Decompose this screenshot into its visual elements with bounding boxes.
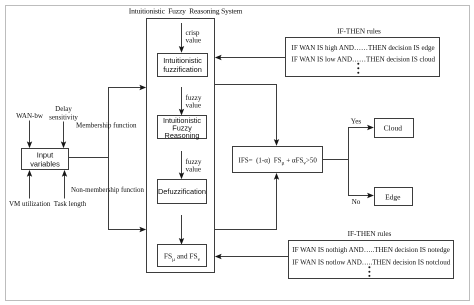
svg-text:Intuitionistic Fuzzy Reasoni: Intuitionistic Fuzzy Reasoning System (129, 7, 243, 16)
svg-text:Edge: Edge (385, 192, 401, 201)
svg-text:value: value (186, 37, 202, 45)
svg-text:Reasoning: Reasoning (165, 131, 200, 140)
svg-text:Defuzzification: Defuzzification (158, 187, 206, 196)
svg-text:Delay: Delay (55, 105, 72, 113)
svg-text:IF-THEN rules: IF-THEN rules (337, 27, 381, 35)
label: fuzzy value (lower) (186, 158, 202, 173)
box: Defuzzification (158, 180, 207, 204)
wire: Delay sensitivity arrow into input variables (61, 122, 66, 149)
box: IF-THEN rules top (286, 38, 440, 77)
wire: system box to IFS top entry (215, 85, 280, 146)
wire: Task length arrow into input variables (62, 170, 67, 199)
svg-text:fuzzification: fuzzification (163, 65, 202, 74)
svg-text:WAN-bw: WAN-bw (16, 112, 44, 120)
box: Edge (375, 188, 413, 206)
svg-text:value: value (186, 102, 202, 110)
wire: IFS to yes/no junction (323, 159, 349, 161)
wire: input variables to junction (68, 157, 109, 159)
box: IFS decision (233, 147, 323, 173)
box: Input variables (22, 149, 69, 170)
label: crisp value (186, 29, 202, 45)
svg-text:variables: variables (30, 159, 60, 168)
svg-text:IF WAN IS notlow AND…..THEN de: IF WAN IS notlow AND…..THEN decision IS … (292, 258, 450, 266)
wire: arrow defuzzification to FS box (179, 215, 184, 245)
wire: crisp value arrow into fuzzification (179, 23, 184, 53)
wire: vertical junction line (108, 87, 110, 230)
svg-text:VM utilization: VM utilization (9, 200, 51, 208)
box: Cloud (375, 119, 414, 138)
svg-text:IF-THEN rules: IF-THEN rules (348, 230, 392, 238)
wire: arrow IF-THEN bottom to system box (215, 254, 289, 259)
svg-text:Non-membership function: Non-membership function (71, 187, 144, 194)
svg-text:Membership function: Membership function (76, 122, 137, 130)
wire: yes branch arrow to Cloud (348, 125, 374, 130)
box: FSmu and FSnu (158, 245, 207, 267)
svg-text:Input: Input (37, 150, 53, 159)
svg-text:No: No (352, 198, 361, 206)
wire: no branch arrow to Edge (348, 193, 374, 198)
wire: VM utilization arrow into input variables (27, 170, 32, 199)
svg-text:Cloud: Cloud (384, 124, 403, 133)
svg-text:IF WAN IS low AND……THEN decisi: IF WAN IS low AND……THEN decision IS clou… (292, 55, 436, 63)
box: Intuitionistic fuzzification (158, 54, 208, 77)
wire: junction vertical (348, 128, 350, 196)
wire: system box to IFS bottom entry (215, 173, 280, 230)
wire: fuzzy value arrow reasoning to defuzzification (179, 151, 184, 179)
wire: arrow IF-THEN top to system box (215, 55, 286, 60)
system boundary box (147, 19, 215, 273)
box: IF-THEN rules bottom (289, 241, 454, 279)
label: Delay sensitivity (49, 105, 78, 122)
wire: membership function arrow into system box (108, 85, 146, 90)
svg-text:IF WAN IS nothigh AND…..THEN d: IF WAN IS nothigh AND…..THEN decision IS… (292, 246, 450, 254)
wire: fuzzy value arrow fuzzification to reasoning (179, 87, 184, 116)
svg-text:Intuitionistic: Intuitionistic (163, 56, 202, 65)
svg-text:sensitivity: sensitivity (49, 113, 78, 121)
svg-text:IF WAN IS high AND……THEN decis: IF WAN IS high AND……THEN decision IS edg… (292, 44, 435, 52)
box: Intuitionistic Fuzzy Reasoning (158, 116, 207, 141)
svg-text:value: value (186, 166, 202, 174)
svg-text:Task length: Task length (54, 200, 87, 208)
wire: non-membership function arrow into system box (108, 227, 146, 232)
label: fuzzy value (upper) (186, 94, 202, 109)
svg-text:Yes: Yes (351, 118, 362, 126)
wire: WAN-bw arrow into input variables (27, 121, 32, 149)
